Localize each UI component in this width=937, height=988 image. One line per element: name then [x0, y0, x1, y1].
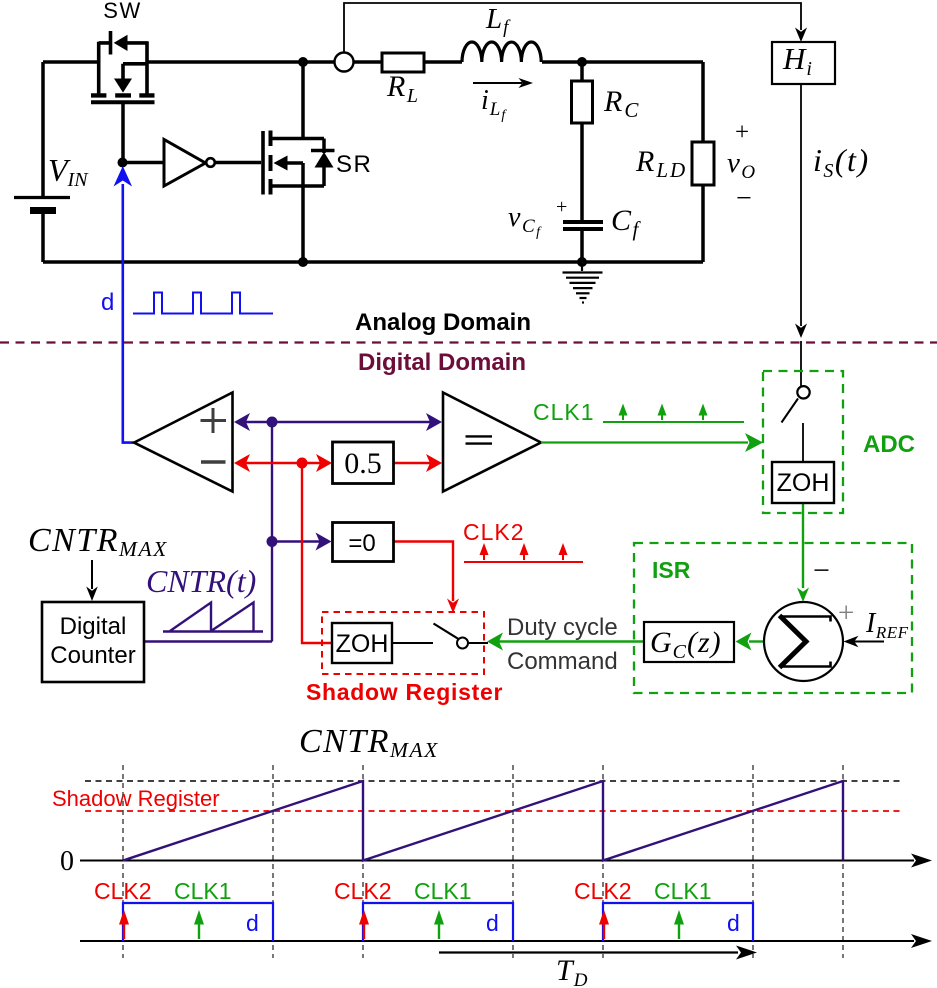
svg-text:ISR: ISR [652, 557, 691, 583]
svg-text:d: d [101, 289, 114, 316]
svg-text:d: d [246, 910, 259, 936]
svg-text:Shadow Register: Shadow Register [306, 679, 503, 705]
svg-text:ZOH: ZOH [777, 469, 830, 497]
svg-text:=0: =0 [348, 530, 375, 557]
svg-text:d: d [486, 910, 499, 936]
svg-text:Shadow Register: Shadow Register [52, 786, 220, 811]
svg-text:−: − [736, 183, 752, 214]
svg-text:+: + [556, 196, 567, 218]
svg-text:Digital Domain: Digital Domain [358, 349, 526, 376]
svg-text:0.5: 0.5 [344, 447, 382, 480]
svg-text:Counter: Counter [50, 642, 135, 669]
svg-text:Digital: Digital [60, 613, 127, 640]
svg-text:CLK2: CLK2 [334, 878, 392, 904]
svg-text:Duty cycle: Duty cycle [507, 614, 618, 641]
svg-text:−: − [813, 554, 830, 587]
svg-text:iS(t): iS(t) [813, 142, 870, 182]
svg-text:CNTR(t): CNTR(t) [146, 563, 256, 599]
svg-text:Command: Command [507, 648, 618, 675]
svg-text:CLK1: CLK1 [174, 878, 232, 904]
svg-text:SR: SR [336, 151, 372, 178]
svg-text:+: + [838, 597, 854, 629]
svg-text:CLK1: CLK1 [654, 878, 712, 904]
svg-text:ADC: ADC [863, 431, 915, 458]
svg-text:+: + [735, 119, 749, 146]
svg-text:CLK2: CLK2 [463, 519, 525, 545]
svg-text:ZOH: ZOH [336, 630, 389, 658]
svg-text:0: 0 [60, 846, 74, 877]
svg-text:Analog Domain: Analog Domain [355, 309, 531, 336]
svg-text:d: d [727, 910, 740, 936]
svg-text:CLK1: CLK1 [414, 878, 472, 904]
svg-text:CLK1: CLK1 [533, 399, 595, 425]
svg-text:CLK2: CLK2 [574, 878, 632, 904]
svg-text:SW: SW [103, 0, 141, 23]
svg-text:CLK2: CLK2 [94, 878, 152, 904]
